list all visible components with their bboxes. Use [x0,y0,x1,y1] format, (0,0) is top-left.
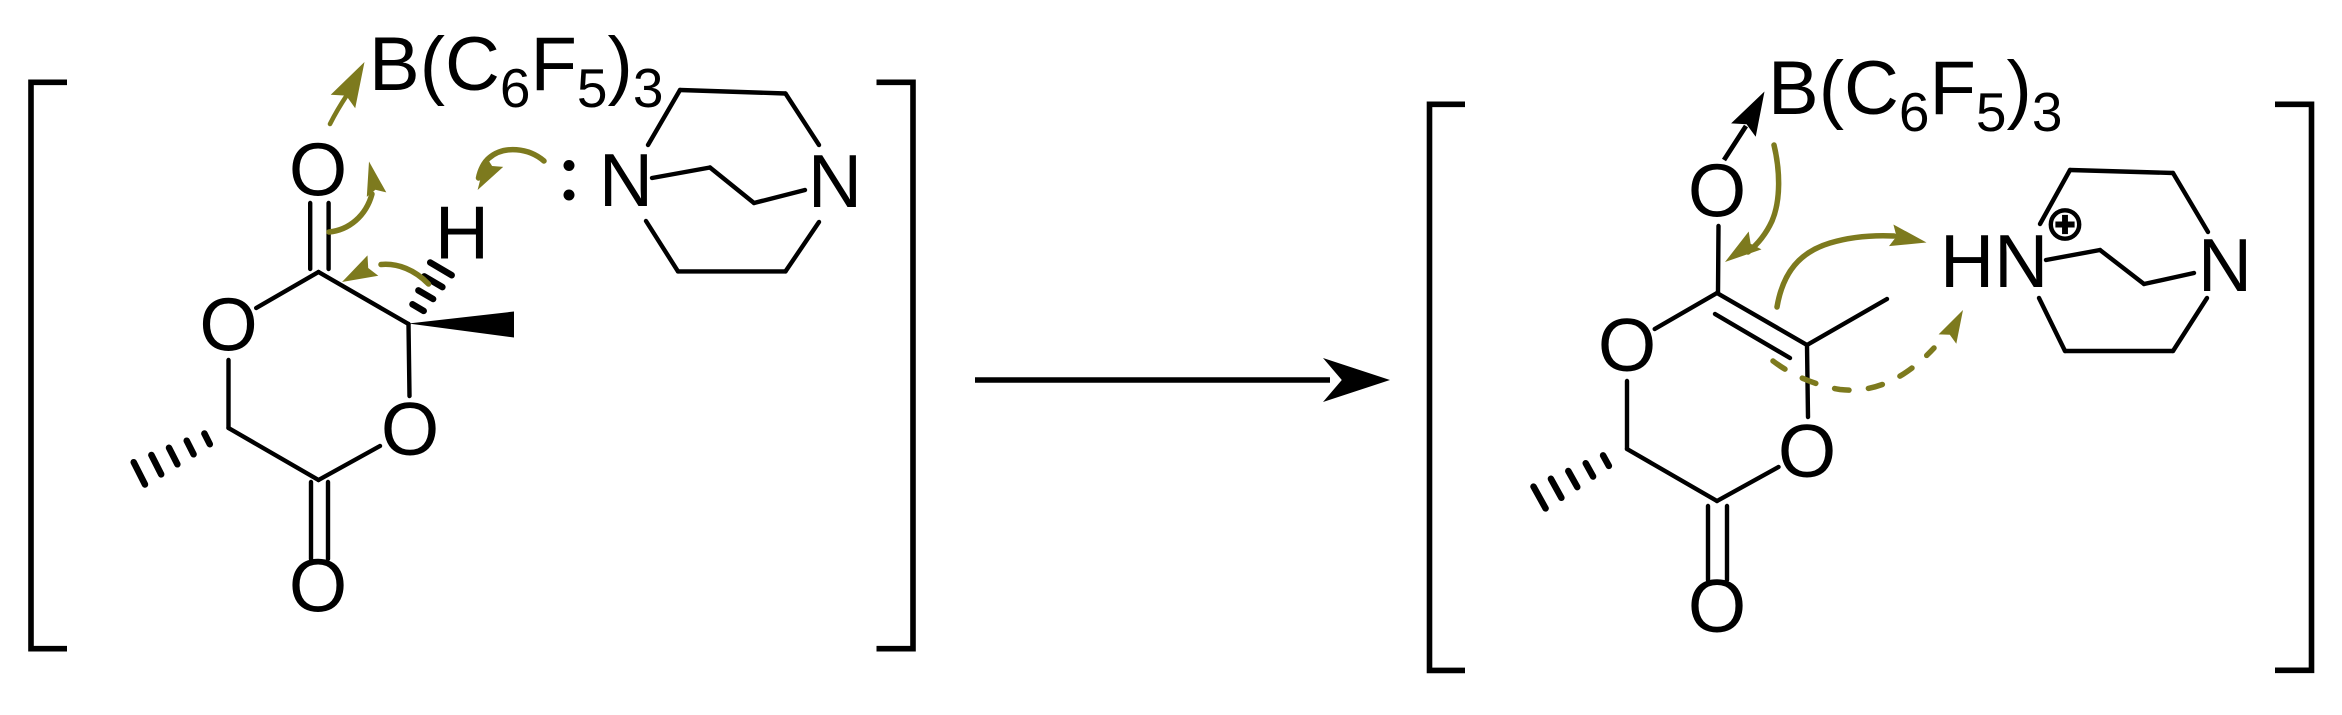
bond C-N1 BL (DABCO R) [2039,298,2065,351]
bond C3-methyl (R) [1807,299,1887,345]
arrowhead dashed to N [1939,310,1963,344]
curved arrow O to B shaft [330,95,347,124]
svg-text:O: O [1688,149,1746,233]
bond C-N2 TR (DABCO L) [786,94,820,146]
bond C2-O1 [256,272,318,308]
bond O4-C3 (R) [1807,345,1808,417]
left bracket of product complex [1430,104,1466,670]
right bracket of reactant complex [877,82,914,648]
bridge C-C (DABCO L) [710,168,754,204]
bond C6-C5 (R) [1627,449,1717,501]
svg-text:O: O [199,283,257,367]
arrowhead C=O pi [367,162,387,197]
bond C-C bottom (DABCO R) [2065,349,2173,353]
dative arrow O to B shaft [1724,126,1746,160]
bond O4-C3 [409,324,410,396]
bond C-N2 TR (DABCO R) [2173,173,2208,232]
dashed curved arrow O4 to N shaft [1773,348,1934,390]
svg-text:N: N [599,138,653,222]
right bracket of product complex [2275,104,2312,670]
DABCO right [2039,170,2208,351]
C5=O double bond bottom [309,482,313,559]
curved arrow C=O pi shaft [329,194,372,232]
svg-text:N: N [2198,223,2252,307]
bridge C-C (DABCO R) [2100,250,2144,284]
bond C6-C5 [229,428,319,480]
bond O1-C6 (R) [1625,381,1629,449]
hashed bond C3-H [413,263,452,311]
bridge N1-C (DABCO L) [652,168,710,179]
dative arrow O to B head [1731,92,1764,137]
arrowhead B to O [1725,232,1762,263]
bond N2-C BR (DABCO L) [786,222,820,271]
curved arrow C-H to C2 shaft [381,264,429,284]
arrowhead C=C to N [1889,225,1927,247]
bridge C-N2 (DABCO R) [2144,273,2194,284]
svg-text:O: O [381,387,439,471]
bold wedge C3-methyl [409,312,515,338]
bond C2-O enolate [1716,226,1721,293]
svg-text:N: N [808,139,862,223]
svg-text:O: O [289,544,347,628]
bond C3=C2 inner (R) [1715,314,1790,358]
bond N1-C TL (DABCO L) [648,90,680,145]
arrowhead lone pair to H [478,157,504,190]
curved arrow N lone pair to H shaft [479,150,545,178]
svg-text:O: O [1688,564,1746,648]
C2=O double bond top [308,203,312,269]
DABCO left [646,90,819,271]
bond C-C bottom (DABCO L) [678,269,786,273]
reaction arrow shaft [975,377,1330,383]
bond C5-O4 [319,446,381,480]
enol lactide ring right [1627,226,1887,580]
bond C3=C2 outer (R) [1717,293,1807,345]
bridge C-N2 (DABCO L) [754,190,805,203]
plus charge circle [2051,210,2079,238]
plus charge cross [2055,215,2074,234]
bond C3-C2 [319,272,409,324]
bond N1-C TL (DABCO R) [2040,170,2070,224]
bond C-N1 BL (DABCO L) [646,221,678,271]
lactide ring left [229,203,410,559]
svg-text:O: O [1778,409,1836,493]
arrowhead O to B [331,62,365,108]
lone pair dots on N1 [564,160,575,171]
svg-text:H: H [435,191,489,275]
svg-text:O: O [289,128,347,212]
reaction arrow head [1323,358,1390,402]
svg-text:O: O [1598,303,1656,387]
bond C5-O4 (R) [1717,467,1779,501]
bond N2-C BR (DABCO R) [2173,298,2207,351]
hashed methyl on C6 left [134,434,210,485]
bond O1-C6 [226,360,230,428]
C5=O double bond bottom (R) [1706,506,1710,580]
left bracket of reactant complex [31,82,67,648]
bond C2-O1 (R) [1655,293,1717,329]
bond C-C top (DABCO R) [2070,170,2173,173]
svg-text:HN: HN [1940,219,2048,303]
bond C-C top (DABCO L) [680,90,786,94]
arrowhead C-H to C2 [342,255,378,282]
bridge N1-C (DABCO R) [2046,250,2100,260]
curved arrow C=C to N shaft [1777,236,1894,307]
hashed methyl on C6 right [1534,455,1609,508]
curved arrow B to O shaft [1748,145,1779,252]
